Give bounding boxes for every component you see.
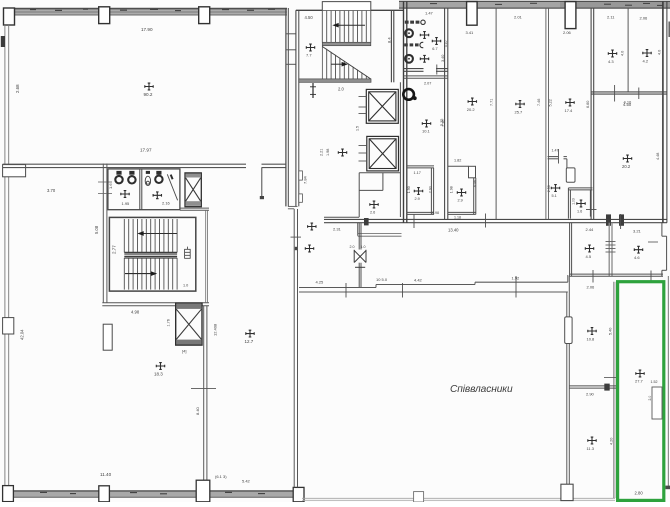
svg-text:3.40: 3.40 (441, 55, 445, 62)
svg-text:1.76: 1.76 (167, 319, 171, 326)
small rooms x545-594 y156-219 (548, 156, 558, 158)
svg-text:4.42: 4.42 (414, 278, 423, 283)
upper stair treads (322, 10, 371, 42)
vestibule walls (357, 223, 359, 236)
svg-text:12.408: 12.408 (213, 323, 218, 336)
left outer wall (double line) (4, 24, 6, 490)
svg-text:2.11: 2.11 (607, 15, 615, 20)
svg-text:[4]: [4] (182, 349, 186, 354)
svg-text:1.47: 1.47 (425, 10, 434, 15)
svg-text:1.18: 1.18 (454, 216, 461, 220)
svg-text:1.92: 1.92 (512, 276, 521, 281)
svg-text:1.47: 1.47 (552, 149, 559, 153)
tick crossing west wall (291, 236, 302, 238)
gap stubs (286, 33, 296, 35)
corridor ticks and dims (345, 283, 347, 298)
tick above green (650, 271, 652, 282)
svg-text:25.7: 25.7 (515, 110, 524, 115)
svg-text:3.41: 3.41 (466, 30, 475, 35)
svg-text:7.36: 7.36 (442, 120, 446, 127)
door leaf in middle wall (261, 168, 263, 197)
svg-text:17.97: 17.97 (140, 148, 152, 153)
svg-text:13.40: 13.40 (448, 228, 459, 233)
left wall column lower (3, 318, 14, 334)
big lower-left room texts (156, 363, 164, 370)
elevator E1 beside toilets (185, 173, 201, 207)
svg-text:4.5: 4.5 (586, 254, 592, 259)
stairwell arrow up (left) (142, 233, 178, 235)
svg-text:2.44: 2.44 (586, 227, 595, 232)
svg-text:11.3: 11.3 (587, 446, 595, 451)
lower flight treads clipped by diagonal (322, 46, 371, 79)
small ladder symbol right landing (185, 247, 191, 259)
stair diagonal (322, 47, 371, 80)
green room labels (636, 370, 644, 377)
room below: bold WC (403, 89, 414, 100)
stairwell treads upper flight (124, 219, 177, 252)
svg-text:1.82: 1.82 (454, 158, 461, 162)
right building west wall (403, 1, 405, 222)
svg-text:6.7: 6.7 (432, 47, 437, 51)
RB left small room (407, 165, 434, 167)
corridor bottom ticks / door blobs on long wall (413, 215, 415, 229)
top stair block outline (296, 9, 403, 11)
svg-text:4.0: 4.0 (621, 51, 625, 56)
svg-text:1.0: 1.0 (361, 245, 366, 249)
svg-text:2.90: 2.90 (586, 391, 595, 396)
svg-text:1.95: 1.95 (122, 201, 131, 206)
stairwell treads lower flight (124, 258, 177, 290)
svg-text:7.7: 7.7 (306, 53, 312, 58)
svg-text:90.2: 90.2 (144, 92, 153, 97)
svg-text:4.20: 4.20 (610, 438, 614, 445)
stair arrows (337, 24, 366, 26)
svg-text:8.08: 8.08 (473, 180, 477, 187)
right building top wall band (399, 1, 670, 8)
RB bathroom hatches (405, 21, 420, 24)
svg-text:2.06: 2.06 (563, 30, 572, 35)
svg-text:1.17: 1.17 (414, 171, 421, 175)
small top-right rooms bottom wall (591, 91, 667, 93)
big room bottom faint wall (302, 497, 615, 499)
svg-text:18.3: 18.3 (154, 372, 163, 377)
shaft door stubs (359, 97, 367, 162)
svg-text:4.3: 4.3 (608, 59, 614, 64)
svg-text:12.7: 12.7 (245, 339, 254, 344)
svg-text:2.9: 2.9 (415, 197, 420, 201)
RB bathroom toilets (405, 29, 413, 37)
svg-text:42.04: 42.04 (20, 329, 25, 340)
elevator E2 lower (176, 303, 202, 345)
big room top wall stepped (299, 291, 568, 293)
bottom landing band (299, 79, 371, 82)
left building bottom wall band (3, 491, 299, 498)
left wall column at middle wall junction (3, 165, 26, 177)
svg-text:5.42: 5.42 (242, 478, 251, 483)
svg-text:3.70: 3.70 (47, 188, 56, 193)
svg-text:17.90: 17.90 (141, 27, 153, 32)
tick crossing wall (191, 388, 216, 390)
svg-text:1.03: 1.03 (572, 198, 576, 205)
svg-text:10.1: 10.1 (422, 129, 431, 134)
big room west wall (293, 209, 295, 487)
stairwell arrow down (right) (125, 273, 153, 275)
wall below elevator E2 (203, 306, 205, 489)
svg-text:2.68: 2.68 (15, 84, 20, 93)
svg-text:2.50: 2.50 (547, 185, 551, 192)
svg-text:2.21: 2.21 (320, 149, 324, 156)
svg-text:1.6: 1.6 (577, 210, 582, 214)
svg-text:5.40: 5.40 (608, 328, 612, 335)
wall between 10.8 rooms and green room (613, 282, 615, 498)
wall right of corridor upper segment (205, 210, 207, 303)
svg-text:Співвласники: Співвласники (450, 384, 513, 395)
svg-text:4.6: 4.6 (634, 255, 640, 260)
svg-text:2.93: 2.93 (429, 186, 433, 193)
wall notches (299, 171, 303, 180)
svg-text:2.07: 2.07 (424, 82, 431, 86)
section mark (312, 83, 314, 98)
niche rect inside green room (652, 387, 662, 419)
rooms A/B bottom wall (570, 273, 663, 275)
svg-text:27.7: 27.7 (635, 379, 644, 384)
right building east wall (662, 1, 664, 222)
elevator shaft S1 (366, 89, 398, 123)
stair block west wall (295, 10, 297, 206)
svg-text:2.0: 2.0 (648, 396, 652, 401)
svg-text:4.98: 4.98 (131, 310, 140, 315)
svg-text:10 5.0: 10 5.0 (376, 277, 388, 282)
mid landing band (322, 42, 371, 45)
machine rooms below shafts (359, 173, 400, 217)
toilet block bottom wall to corridor (180, 207, 209, 209)
svg-text:4.0: 4.0 (658, 50, 662, 55)
svg-text:1.6: 1.6 (108, 183, 113, 189)
room 11.3 labels (588, 437, 596, 444)
left wall pilaster dark (1, 36, 5, 47)
svg-text:3.21: 3.21 (633, 229, 642, 234)
wall from corridor down to big room (with double door) (358, 223, 360, 250)
svg-text:6.60: 6.60 (586, 101, 590, 108)
small external stub top right (668, 22, 670, 38)
wall between room 10.8 and 11.3 (569, 385, 616, 387)
green highlighted room (618, 282, 664, 501)
east boundary lower (667, 276, 669, 487)
svg-text:5.08: 5.08 (94, 225, 99, 234)
top landing protruding above (322, 2, 371, 11)
big room east wall (566, 292, 568, 498)
inner small room 1.6 (568, 187, 592, 189)
svg-text:1.98: 1.98 (450, 186, 454, 193)
svg-text:10.8: 10.8 (587, 337, 596, 342)
stairwell middle rails (124, 252, 177, 258)
svg-text:20.2: 20.2 (622, 164, 631, 169)
west wall of toilet/stair block (102, 164, 104, 304)
svg-text:4.2: 4.2 (643, 59, 649, 64)
svg-text:4.50: 4.50 (623, 102, 632, 107)
svg-text:2.0: 2.0 (350, 245, 355, 249)
svg-text:0.98: 0.98 (432, 211, 439, 215)
svg-text:2.06: 2.06 (587, 285, 596, 290)
svg-text:2.16: 2.16 (162, 201, 171, 206)
second wall below bathroom (404, 75, 448, 77)
east wall jog at rooms B (661, 223, 663, 237)
left building east wall (expansion gap west line) (285, 8, 287, 206)
svg-text:20.2: 20.2 (467, 107, 476, 112)
interior walls top rooms (444, 8, 446, 219)
svg-text:1.5: 1.5 (356, 126, 360, 131)
svg-text:7.84: 7.84 (303, 175, 308, 184)
elevator lobby east wall (399, 82, 401, 217)
svg-text:2.6: 2.6 (370, 211, 375, 215)
RB middle small room (448, 165, 469, 167)
svg-text:8.40: 8.40 (195, 406, 200, 415)
main stairwell box (109, 217, 195, 291)
svg-text:2.01: 2.01 (514, 15, 523, 20)
svg-text:11.40: 11.40 (100, 472, 112, 477)
svg-text:5.22: 5.22 (549, 99, 553, 106)
middle wall horizontal (y164/167.5) (3, 163, 246, 165)
WC fixtures right room: oval (145, 176, 150, 185)
svg-text:2.0: 2.0 (338, 87, 344, 92)
svg-text:1.52: 1.52 (651, 380, 658, 384)
bathroom crosses and arrows (420, 32, 428, 39)
svg-text:4.50: 4.50 (305, 15, 314, 20)
svg-text:1.90: 1.90 (407, 186, 411, 193)
bottom wall columns (3, 486, 14, 502)
ticks crossing west wall (98, 181, 112, 183)
toilet partition (139, 169, 141, 210)
bottom columns in big room (414, 492, 424, 502)
svg-text:3.10: 3.10 (444, 40, 448, 47)
svg-text:2.9: 2.9 (458, 199, 463, 203)
svg-text:2.31: 2.31 (333, 227, 342, 232)
svg-text:4.48: 4.48 (656, 153, 660, 160)
door swing right room (167, 174, 177, 200)
room 10.8 labels (588, 328, 596, 335)
left building top wall band (13, 8, 287, 15)
svg-text:1.98: 1.98 (326, 149, 330, 156)
svg-text:2.06: 2.06 (640, 16, 649, 21)
cross right toilet room (153, 192, 161, 199)
svg-text:(6.1 3): (6.1 3) (215, 474, 227, 479)
svg-text:8.4: 8.4 (387, 37, 392, 43)
door rect on east wall (565, 317, 572, 344)
svg-text:7.46: 7.46 (537, 99, 541, 106)
rooms A/B west wall (569, 223, 571, 277)
wall under stairblock turning right (102, 302, 176, 304)
svg-text:2.80: 2.80 (635, 491, 644, 496)
svg-text:7.71: 7.71 (490, 99, 494, 106)
WC fixtures left room (115, 176, 122, 183)
rooms A/B partition (gray with hatch) (608, 223, 610, 277)
hook at top of west wall (288, 205, 298, 207)
elevator shaft S2 (367, 136, 399, 171)
cross left toilet room (121, 191, 129, 198)
toilet block box (108, 169, 180, 210)
right building top columns (467, 2, 478, 26)
svg-text:4.25: 4.25 (316, 280, 325, 285)
svg-text:2.77: 2.77 (112, 245, 117, 254)
corridor top wall long (324, 216, 359, 218)
svg-text:17.4: 17.4 (565, 108, 574, 113)
top wall columns (4, 8, 15, 25)
bathroom bottom wall with gap (404, 68, 424, 70)
room 12.7 labels (246, 330, 254, 337)
double door symbol (354, 250, 366, 267)
svg-text:1.0: 1.0 (183, 284, 188, 288)
svg-text:5.1: 5.1 (552, 194, 557, 198)
